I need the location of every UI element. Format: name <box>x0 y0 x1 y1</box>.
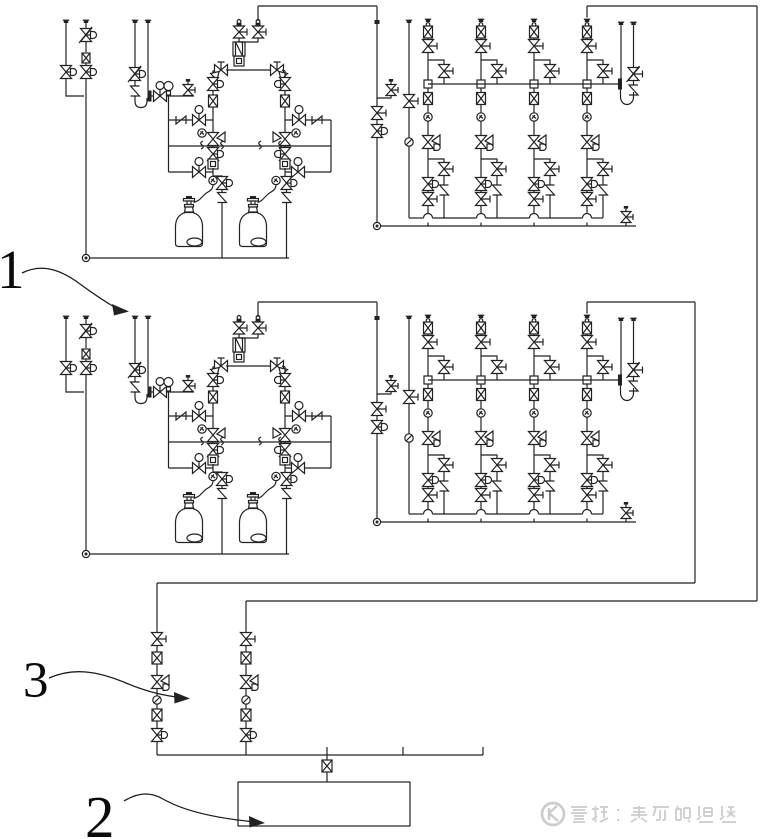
wire <box>496 374 498 381</box>
fitting B-U4 <box>375 316 380 320</box>
three-way valve A-C4-TV1 <box>582 135 600 150</box>
wire <box>586 418 588 432</box>
wire <box>85 41 87 52</box>
wire <box>496 472 498 481</box>
valve A-C2-V5 <box>476 193 491 206</box>
gauge B-C2-PI1 <box>477 409 485 417</box>
wire <box>240 38 259 42</box>
wire <box>427 53 429 85</box>
fitting A-U4 <box>375 20 380 24</box>
connector A-C4 <box>585 23 589 27</box>
wire <box>377 392 391 394</box>
relief A-C1-PSV1 <box>440 185 449 195</box>
wire <box>586 445 588 474</box>
wire <box>376 302 378 316</box>
wire <box>168 392 170 468</box>
cap A-C1 <box>425 19 431 22</box>
valve D1-V2 <box>152 729 168 742</box>
leader arrow 1 <box>22 268 129 315</box>
three-way valve A-C2-TV1 <box>476 135 494 150</box>
hose coil HS6 <box>221 437 224 445</box>
wire <box>427 334 429 336</box>
wire <box>480 122 482 136</box>
wire <box>169 415 214 417</box>
fitting B-U2 <box>208 455 218 465</box>
valve B-V16 <box>292 454 305 474</box>
node A-N2 <box>373 222 380 229</box>
valve A-C3-V5 <box>529 193 544 206</box>
wire <box>443 491 445 514</box>
gas cylinder B-CYL1 <box>176 509 203 543</box>
wire <box>226 365 272 367</box>
relief B-PSV3 <box>282 489 291 499</box>
filter A-F1 <box>82 53 90 63</box>
gauge A-PI4 <box>292 129 300 137</box>
wire <box>586 88 588 92</box>
cap B-CP-pigtail <box>145 316 151 319</box>
wire <box>633 377 635 382</box>
valve B-V2 <box>79 323 97 339</box>
gauge B-PI1 <box>164 378 173 392</box>
wire <box>156 646 158 653</box>
wire <box>633 25 635 68</box>
cap A-CP-pigtail <box>145 20 151 23</box>
filter A-C3-F1 <box>530 26 539 38</box>
wire <box>238 38 240 42</box>
fitting A-U1 <box>234 56 244 66</box>
wire <box>587 5 757 7</box>
valve A-V9 <box>253 20 267 38</box>
three-way valve B-C2-TV1 <box>476 431 494 446</box>
hose coil HS7 <box>259 437 262 445</box>
line hop <box>530 510 539 515</box>
wire <box>157 754 483 756</box>
relief B-C1-PSV1 <box>440 481 449 491</box>
wire <box>168 96 170 172</box>
wire <box>427 384 429 388</box>
wire <box>427 401 429 409</box>
wire <box>284 455 286 458</box>
valve A-C2-V4 <box>476 178 492 191</box>
three-way valve A-C3-TV1 <box>529 135 547 150</box>
wire <box>586 502 588 510</box>
wire <box>257 6 259 21</box>
wire <box>428 159 444 163</box>
wire <box>480 445 482 474</box>
valve B-C2-V4 <box>476 474 492 487</box>
connector A-C1 <box>426 23 430 27</box>
wire <box>284 464 286 472</box>
valve B-C3-V4 <box>529 474 545 487</box>
wire <box>539 513 583 515</box>
wire <box>85 23 87 28</box>
valve B-C1-V4 <box>423 474 439 487</box>
line hop <box>583 214 592 218</box>
wire <box>134 23 136 67</box>
wire <box>534 159 550 163</box>
valve B-V6 <box>193 402 206 422</box>
wire <box>496 78 498 85</box>
valve B-C4-V4 <box>582 474 598 487</box>
wire <box>226 69 272 71</box>
valve A-V12 <box>217 177 233 190</box>
wire <box>381 521 637 523</box>
relief A-C2-PSV1 <box>493 185 502 195</box>
wire <box>586 105 588 113</box>
wire <box>486 217 530 219</box>
wire <box>245 646 247 653</box>
cap A-C2 <box>478 19 484 22</box>
wire <box>85 337 87 348</box>
valve A-C1-V2 <box>439 65 454 78</box>
relief A-C3-PSV1 <box>546 185 555 195</box>
hose B-H1 <box>194 481 214 499</box>
valve A-C3-V1 <box>529 40 544 53</box>
wire <box>625 223 627 227</box>
fitting B-U3 <box>280 455 290 465</box>
valve A-C3-V2 <box>545 65 560 78</box>
wire <box>212 403 214 428</box>
wire <box>85 78 87 255</box>
wire <box>212 455 214 458</box>
valve A-C2-V1 <box>476 40 491 53</box>
gauge B-PI6 <box>405 434 413 442</box>
fitting A-C2-U1 <box>477 80 485 88</box>
filter B-C3-F1 <box>530 322 539 334</box>
filter A-F3 <box>281 95 290 107</box>
wire <box>66 78 84 96</box>
filter D3-F1 <box>322 760 332 772</box>
wire <box>408 108 410 138</box>
valve A-V21 <box>627 66 643 82</box>
valve A-V20 <box>404 95 419 108</box>
cylinder valve A-CH1 <box>184 196 195 212</box>
wire <box>169 171 214 173</box>
gauge A-PI3 <box>209 176 217 184</box>
line hop <box>424 214 433 218</box>
connector B-C3 <box>532 319 536 323</box>
wire <box>286 485 288 488</box>
wire <box>240 334 259 338</box>
wire <box>376 6 378 20</box>
filter A-C1-F2 <box>424 93 433 105</box>
wire <box>169 145 332 147</box>
wire <box>756 6 758 601</box>
wire <box>533 190 535 193</box>
fitting A-C3-U1 <box>530 80 538 88</box>
valve A-V1 <box>61 66 77 79</box>
wire <box>134 80 136 86</box>
wire <box>586 38 588 40</box>
filter B-C2-F2 <box>477 389 486 401</box>
wire <box>245 664 247 676</box>
wire <box>428 356 444 361</box>
wire <box>147 319 149 387</box>
wire <box>428 60 444 65</box>
wire <box>85 374 87 551</box>
wire <box>427 349 429 381</box>
wire <box>282 366 285 374</box>
relief valve B-RV1 <box>183 375 195 392</box>
hose coil HS4 <box>279 141 282 149</box>
valve A-C2-V2 <box>492 65 507 78</box>
wire <box>427 149 429 178</box>
valve A-V14 <box>293 106 306 126</box>
hose coil HS2 <box>221 141 224 149</box>
wire <box>330 120 332 172</box>
wire <box>238 64 240 66</box>
wire <box>480 349 482 381</box>
wire <box>246 600 757 602</box>
wire <box>285 467 331 469</box>
wire <box>602 78 604 85</box>
relief A-PSV3 <box>282 193 291 203</box>
wire <box>586 190 588 193</box>
fitting B-C1-U1 <box>424 376 432 384</box>
gauge B-PI4 <box>292 425 300 433</box>
wire <box>549 472 551 481</box>
filter A-C2-F2 <box>477 93 486 105</box>
wire <box>409 513 424 515</box>
wire <box>533 206 535 214</box>
valve B-V20 <box>404 391 419 404</box>
cap CP8 <box>83 316 89 319</box>
relief B-PSV1 <box>131 382 140 392</box>
valve A-V15 <box>275 148 291 161</box>
valve B-V3 <box>81 362 97 375</box>
wire <box>134 376 136 382</box>
wire <box>377 96 391 98</box>
relief valve B-RV3 <box>621 502 633 519</box>
wire <box>245 742 247 756</box>
wire <box>480 384 482 388</box>
wire <box>443 472 445 481</box>
gauge A-C1-PI1 <box>424 113 432 121</box>
wire <box>534 455 550 459</box>
pigtail U-trap B <box>135 394 147 404</box>
wire <box>286 499 288 555</box>
filter A-C2-F1 <box>477 26 486 38</box>
wire <box>480 53 482 85</box>
wire <box>586 401 588 409</box>
filter A-C4-F2 <box>583 93 592 105</box>
wire <box>258 301 377 303</box>
wire <box>625 519 627 523</box>
wire <box>212 146 214 149</box>
valve A-C1-V3 <box>439 163 454 176</box>
wire <box>285 171 331 173</box>
valve B-C2-V5 <box>476 489 491 502</box>
wire <box>586 519 588 523</box>
wire <box>284 442 286 445</box>
valve A-V16 <box>292 158 305 178</box>
wire <box>156 742 158 756</box>
pigtail U-trap B-2 <box>621 386 634 401</box>
valve A-C3-V3 <box>545 163 560 176</box>
hose coil HS1 <box>201 141 204 149</box>
three-way valve B-TV2 <box>271 358 288 376</box>
wire <box>549 374 551 381</box>
filter B-C3-F2 <box>530 389 539 401</box>
relief B-PSV4 <box>629 381 638 391</box>
wire <box>330 416 332 468</box>
three-way valve B-C3-TV1 <box>529 431 547 446</box>
valve B-C4-V3 <box>598 459 613 472</box>
valve B-V5 <box>154 378 167 398</box>
wire <box>221 485 223 488</box>
wire <box>427 88 429 92</box>
valve B-V21 <box>627 362 643 378</box>
wire <box>480 38 482 40</box>
valve B-V1 <box>61 362 77 375</box>
cap CP7 <box>63 316 69 319</box>
wire <box>428 379 618 381</box>
valve A-C2-V3 <box>492 163 507 176</box>
wire <box>427 206 429 214</box>
cap B-C3 <box>531 315 537 318</box>
relief A-C4-PSV1 <box>599 185 608 195</box>
wire <box>539 217 583 219</box>
valve B-C1-V1 <box>423 336 438 349</box>
cap A-C4 <box>584 19 590 22</box>
wire <box>427 445 429 474</box>
valve A-C4-V4 <box>582 178 598 191</box>
wire <box>443 176 445 185</box>
gauge B-C3-PI1 <box>530 409 538 417</box>
wire <box>376 320 378 402</box>
wire <box>408 319 410 391</box>
wire <box>284 90 286 95</box>
wire <box>245 689 247 696</box>
cap CP2 <box>83 20 89 23</box>
valve B-V7 <box>193 454 206 474</box>
wire <box>486 513 530 515</box>
wire <box>245 721 247 729</box>
wire <box>408 404 410 434</box>
node A-N1 <box>82 254 89 261</box>
node B-N1 <box>82 550 89 557</box>
wire <box>152 95 155 97</box>
valve B-V19 <box>372 421 388 434</box>
wire <box>427 38 429 40</box>
regulator A-PR1 <box>233 42 245 56</box>
wire <box>156 664 158 676</box>
wire <box>427 105 429 113</box>
wire <box>533 486 535 489</box>
filter D1-F2 <box>152 709 162 721</box>
hose A-H2 <box>258 185 277 203</box>
wire <box>134 392 136 397</box>
relief A-PSV4 <box>629 85 638 95</box>
svg-text:3: 3 <box>23 653 49 709</box>
wire <box>169 441 332 443</box>
wire <box>534 356 550 361</box>
gauge A-C4-PI1 <box>583 113 591 121</box>
wire <box>284 386 286 391</box>
three-way valve B-C4-TV1 <box>582 431 600 446</box>
wire <box>212 464 214 472</box>
wire <box>212 168 214 176</box>
wire <box>376 138 378 223</box>
cylinder valve B-CH1 <box>184 492 195 508</box>
filter D1-F1 <box>152 652 162 664</box>
wire <box>480 486 482 489</box>
wire <box>443 374 445 381</box>
filter B-C4-F2 <box>583 389 592 401</box>
three-way valve A-TV4 <box>273 132 291 146</box>
wire <box>533 149 535 178</box>
fitting B-C2-U1 <box>477 376 485 384</box>
wire <box>533 502 535 510</box>
valve B-V17 <box>281 473 297 486</box>
line hop <box>583 510 592 515</box>
wire <box>586 486 588 489</box>
wire <box>238 55 240 57</box>
wire <box>284 159 286 162</box>
filter D2-F2 <box>241 709 251 721</box>
line hop <box>477 214 486 218</box>
three-way valve A-TV3 <box>208 132 226 146</box>
valve B-C2-V1 <box>476 336 491 349</box>
gas cylinder A-CYL1 <box>176 213 203 247</box>
cap B-C2 <box>478 315 484 318</box>
valve A-V4 <box>128 66 146 82</box>
fitting A-C4-U1 <box>583 80 591 88</box>
wire <box>157 582 695 584</box>
buffer tank T1 <box>238 782 410 826</box>
wire <box>156 705 158 710</box>
connector B-C4 <box>585 319 589 323</box>
cap CP4 <box>406 20 412 23</box>
wire <box>156 721 158 729</box>
wire <box>65 23 67 65</box>
three-way valve B-TV3 <box>208 428 226 442</box>
wire <box>602 472 604 481</box>
cap CP6 <box>630 22 636 25</box>
wire <box>326 772 328 782</box>
relief valve B-RV2 <box>386 375 398 392</box>
wire <box>587 159 603 163</box>
wire <box>586 334 588 336</box>
wire <box>586 6 588 18</box>
wire <box>480 334 482 336</box>
wire <box>533 88 535 92</box>
wire <box>221 203 223 259</box>
wire <box>481 60 497 65</box>
relief B-PSV2 <box>218 489 227 499</box>
wire <box>428 455 444 459</box>
wire <box>533 401 535 409</box>
wire stub <box>482 747 484 755</box>
valve A-C1-V1 <box>423 40 438 53</box>
valve B-V15 <box>275 444 291 457</box>
valve A-C4-V3 <box>598 163 613 176</box>
wire <box>89 257 289 259</box>
valve A-C3-V4 <box>529 178 545 191</box>
valve D2-V2 <box>241 729 257 742</box>
wire <box>533 418 535 432</box>
valve A-V6 <box>193 106 206 126</box>
gauge B-PI3 <box>209 472 217 480</box>
cap A-C3 <box>531 19 537 22</box>
svg-text:1: 1 <box>0 239 25 300</box>
wire <box>89 553 289 555</box>
gauge B-PI5 <box>272 472 280 480</box>
wire <box>221 189 223 192</box>
gauge B-PI2 <box>198 425 206 433</box>
valve B-V11 <box>208 444 224 457</box>
fitting A-U2 <box>208 159 218 169</box>
